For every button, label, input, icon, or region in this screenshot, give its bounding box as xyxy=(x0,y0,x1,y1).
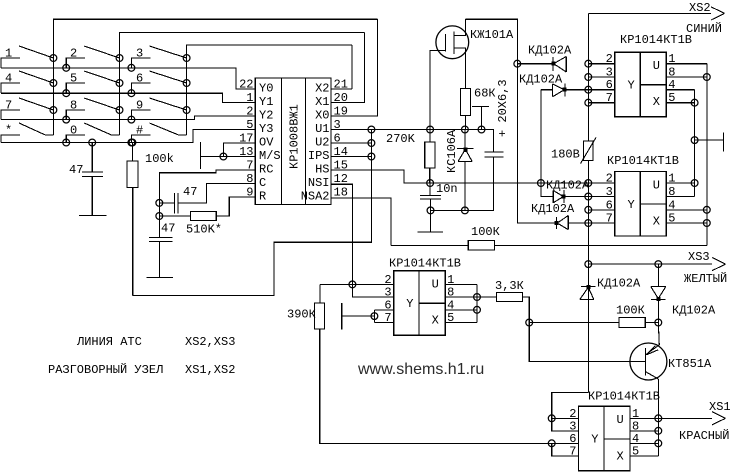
svg-text:HS: HS xyxy=(315,163,329,177)
key 6 switch xyxy=(131,83,150,93)
svg-text:XS2,XS3: XS2,XS3 xyxy=(185,335,235,349)
terminal bar at U4 xyxy=(341,303,343,329)
svg-text:www.shems.h1.ru: www.shems.h1.ru xyxy=(357,361,484,378)
svg-text:XS3: XS3 xyxy=(688,250,710,264)
svg-text:390К: 390К xyxy=(287,308,316,322)
junction U2 pin8 on x707 xyxy=(703,74,710,81)
svg-text:ЛИНИЯ АТС: ЛИНИЯ АТС xyxy=(76,335,142,349)
wire pin13 M/S stub to terminal bar xyxy=(201,156,256,158)
junction U1/U-common xyxy=(368,126,375,133)
wire pin6 U2 stub xyxy=(331,142,371,144)
svg-text:X2: X2 xyxy=(315,82,329,96)
key 0 switch xyxy=(66,135,85,143)
wire 3,3K node down to base xyxy=(529,323,645,362)
junction on U4 pin7 bracket xyxy=(371,313,378,320)
junction U3 pin on x588 xyxy=(585,220,592,227)
svg-text:0: 0 xyxy=(70,124,77,138)
junction x541 on HS wire xyxy=(538,180,545,187)
wire pin21 up to col3 wire xyxy=(351,45,353,89)
svg-text:1: 1 xyxy=(5,47,12,61)
terminal bar above C4 xyxy=(472,106,489,108)
svg-text:4: 4 xyxy=(5,72,12,86)
junction key 6 on column xyxy=(183,80,190,87)
wire C2 right to pin 8 xyxy=(178,184,256,203)
junction U5 pin4 xyxy=(655,440,662,447)
diode VD4 KD102A (pin7 line) xyxy=(517,222,545,224)
key # switch xyxy=(131,135,150,143)
junction U3 pin4 on x707 xyxy=(703,206,710,213)
svg-text:КД102А: КД102А xyxy=(672,304,716,318)
wire bus row1 (Y0) to pin 22 xyxy=(1,68,255,89)
key 5 switch xyxy=(66,83,85,93)
wire XS2 from x588 top xyxy=(588,12,711,14)
diode VD2 KD102A (pin6 line) xyxy=(541,89,553,91)
ground stub below 10n xyxy=(430,210,432,232)
junction key 9 on column xyxy=(183,107,190,114)
wire pin18 NSA2 down to 100K wire xyxy=(331,198,391,246)
svg-text:X: X xyxy=(432,314,439,328)
junction 10n bottom xyxy=(427,207,434,214)
junction IPS/U-common xyxy=(368,153,375,160)
VT2 base bar xyxy=(644,348,646,375)
capacitor C4 20uF polarized xyxy=(482,130,494,152)
wire main vertical x=588 middle xyxy=(587,161,589,393)
capacitor C5 10n xyxy=(429,183,431,196)
junction key 1 on column xyxy=(50,55,57,62)
junction 100K right / collector xyxy=(655,319,662,326)
svg-text:КД102А: КД102А xyxy=(531,202,575,216)
key 4 switch xyxy=(1,83,20,93)
svg-text:#: # xyxy=(136,124,143,138)
svg-text:X1: X1 xyxy=(315,95,329,109)
wire VD2 anode from x541 vertical xyxy=(540,90,542,183)
junction U4 pin8 xyxy=(474,294,481,301)
svg-text:Y: Y xyxy=(406,297,413,311)
junction U4 pin4 xyxy=(474,306,481,313)
junction OV-M/S xyxy=(220,153,227,160)
svg-text:3: 3 xyxy=(136,47,143,61)
svg-text:8: 8 xyxy=(70,99,77,113)
svg-text:Y: Y xyxy=(628,78,635,92)
VT2 collector diagonal with arrow xyxy=(645,345,659,355)
wire pin17 OV stub down to M/S xyxy=(223,143,255,157)
U2 left pin stubs to x588 xyxy=(588,63,615,65)
svg-text:Y2: Y2 xyxy=(259,109,273,123)
U4 pin6/pin7 stubs bracket xyxy=(374,309,393,311)
svg-text:КС106А: КС106А xyxy=(445,129,459,173)
wire RC pin7 to node A xyxy=(159,170,255,203)
junction U3 pin5 on x707 xyxy=(703,220,710,227)
wire x=588 down-left to bottom block xyxy=(552,393,589,419)
svg-text:X: X xyxy=(653,215,660,229)
svg-text:RC: RC xyxy=(259,163,273,177)
resistor R 100K right xyxy=(529,322,619,324)
svg-text:КР1014КТ1В: КР1014КТ1В xyxy=(607,154,679,168)
svg-text:U: U xyxy=(432,277,439,291)
VT1 gate lead to node C xyxy=(430,50,445,129)
wire pin3 U1 long wire to top-right network xyxy=(331,129,493,131)
svg-text:КД102А: КД102А xyxy=(597,277,641,291)
diode VD5 KD102A on x588 (cathode up) xyxy=(581,286,596,288)
svg-text:Y0: Y0 xyxy=(259,82,273,96)
svg-text:6: 6 xyxy=(136,72,143,86)
junction U5 pin1 / XS1 xyxy=(655,415,662,422)
svg-text:КЖ101А: КЖ101А xyxy=(470,28,514,42)
svg-text:X: X xyxy=(653,95,660,109)
junction U2 pin5 on x694 xyxy=(691,99,698,106)
junction U2 pin on x588 xyxy=(585,86,592,93)
svg-text:68К: 68К xyxy=(474,87,496,101)
junction key 5 contact on bus xyxy=(63,90,70,97)
svg-text:47: 47 xyxy=(183,185,197,199)
wire U2 pins1+8 vertical x707 xyxy=(706,64,708,246)
junction VD1 wire on x517 xyxy=(514,60,521,67)
optocoupler U2 KR1014KT1V body xyxy=(615,52,667,117)
svg-text:ЖЕЛТЫЙ: ЖЕЛТЫЙ xyxy=(684,271,727,286)
VT1 channel bar xyxy=(453,32,455,55)
svg-text:XS1,XS2: XS1,XS2 xyxy=(185,363,235,377)
svg-text:180В: 180В xyxy=(551,148,580,162)
junction U2/U-common xyxy=(368,140,375,147)
U3 left pin stubs to x588 xyxy=(588,182,615,184)
junction C4 top node xyxy=(478,126,485,133)
capacitor C1 47 xyxy=(91,143,93,173)
svg-text:NSA2: NSA2 xyxy=(301,190,330,204)
wire U-common vertical upper xyxy=(370,130,372,157)
key 7 switch xyxy=(1,110,20,120)
svg-text:КР1008ВЖ1: КР1008ВЖ1 xyxy=(288,104,302,169)
wire pin15 HS to right network xyxy=(331,170,588,183)
wire node A down to node B xyxy=(158,203,160,216)
svg-text:РАЗГОВОРНЫЙ УЗЕЛ: РАЗГОВОРНЫЙ УЗЕЛ xyxy=(48,362,163,377)
junction key 7 on column xyxy=(50,107,57,114)
junction node A (C2 left) xyxy=(156,200,163,207)
junction node B (R510K left) xyxy=(156,213,163,220)
svg-text:8: 8 xyxy=(246,172,253,186)
svg-text:U2: U2 xyxy=(315,136,329,150)
svg-text:C: C xyxy=(259,176,266,190)
wire pin12 NSI down to middle block xyxy=(331,184,394,297)
svg-text:1: 1 xyxy=(246,91,253,105)
wire VT1 drain top to x=517 vertical xyxy=(466,19,518,222)
optocoupler U4 KR1014KT1V body xyxy=(394,271,446,336)
junction key 2 contact on bus xyxy=(63,64,70,71)
junction 10n top (HS wire) xyxy=(427,180,434,187)
capacitor C3 47 below node B xyxy=(158,216,160,238)
diode VD1 KD102A (pin2 line) xyxy=(517,63,553,65)
junction U3 pin1 on x694 xyxy=(691,180,698,187)
VT1 source lead down to 68K xyxy=(454,48,465,88)
junction U2 pin on x588 xyxy=(585,99,592,106)
svg-text:X0: X0 xyxy=(315,109,329,123)
svg-text:U: U xyxy=(617,413,624,427)
junction U3 pin on x588 xyxy=(585,193,592,200)
U4 pin2 wire from 390K top xyxy=(320,283,394,285)
junction zener top xyxy=(462,126,469,133)
key 1 switch xyxy=(1,58,20,68)
junction U2 pin on x588 xyxy=(585,74,592,81)
transistor VT2 KT851A circle xyxy=(630,343,667,380)
svg-text:OV: OV xyxy=(259,136,274,150)
svg-text:КД102А: КД102А xyxy=(528,44,572,58)
U5 pin2 stub xyxy=(552,417,579,419)
diode VD6 KD102A at x658 (cathode down) xyxy=(657,264,659,287)
junction U5 pin8 xyxy=(655,427,662,434)
U5 pin2-pin3 tie xyxy=(552,418,579,431)
svg-text:КР1014КТ1В: КР1014КТ1В xyxy=(620,33,692,47)
key 9 switch xyxy=(131,110,150,120)
svg-text:47: 47 xyxy=(161,222,175,236)
junction U3 pin on x588 xyxy=(585,206,592,213)
wire bus row4 (Y3) to pin 5 xyxy=(1,130,255,143)
wire U2 pins4+5 vertical x694 xyxy=(694,90,696,197)
svg-text:2: 2 xyxy=(246,105,253,119)
svg-text:100k: 100k xyxy=(145,152,174,166)
junction U3 pin on x588 xyxy=(585,180,592,187)
junction 3,3K/100K node xyxy=(526,319,533,326)
wire terminal bar to U4 pin7 xyxy=(342,315,375,317)
resistor 68K xyxy=(460,88,470,115)
svg-text:КРАСНЫЙ: КРАСНЫЙ xyxy=(679,428,729,443)
wire 100k bottom to U-common vertical xyxy=(133,157,372,296)
svg-text:КР1014КТ1В: КР1014КТ1В xyxy=(588,390,660,404)
junction node C (gate/270K) xyxy=(427,126,434,133)
wire pin14 IPS stub xyxy=(331,156,371,158)
svg-text:100К: 100К xyxy=(616,304,645,318)
svg-text:3,3К: 3,3К xyxy=(495,279,524,293)
junction key 8 on column xyxy=(116,107,123,114)
svg-text:22: 22 xyxy=(239,78,253,92)
junction U5 pin6 xyxy=(548,440,555,447)
svg-text:R: R xyxy=(259,190,266,204)
resistor 270K xyxy=(429,130,431,143)
junction XS3 diode VD6 tap xyxy=(655,261,662,268)
VT1 drain lead up to top wire xyxy=(454,19,465,35)
junction bar wire on x694 xyxy=(691,137,698,144)
wire keypad column 3 (x=186.6) up and across to IC xyxy=(187,45,352,135)
wire U5 right common vertical xyxy=(657,418,659,456)
wire keypad column 1 (x=53.4) up and across to IC xyxy=(53,19,377,135)
arrow XS2 xyxy=(711,7,725,14)
svg-text:КД102А: КД102А xyxy=(519,73,563,87)
svg-text:9: 9 xyxy=(136,99,143,113)
junction key 5 on column xyxy=(116,80,123,87)
varistor 180V body xyxy=(583,141,593,161)
junction key 8 contact on bus xyxy=(63,116,70,123)
wire bus row3 (Y2) to pin 2 xyxy=(1,116,255,120)
resistor R510K* xyxy=(159,215,190,217)
svg-text:NSI: NSI xyxy=(308,176,330,190)
junction key 4 on column xyxy=(50,80,57,87)
junction R100k and key # on bus row4 xyxy=(129,139,136,146)
svg-text:9: 9 xyxy=(246,186,253,200)
svg-text:XS2: XS2 xyxy=(689,1,711,15)
junction key 3 contact on bus xyxy=(128,64,135,71)
wire pin21 X2 stub xyxy=(331,88,352,90)
svg-text:Y: Y xyxy=(628,198,635,212)
svg-text:M/S: M/S xyxy=(259,149,281,163)
resistor 100k xyxy=(131,143,133,162)
svg-text:270K: 270K xyxy=(386,132,416,146)
VT2 emitter diagonal xyxy=(645,372,658,380)
junction key 6 contact on bus xyxy=(128,90,135,97)
optocoupler U5 KR1014KT1V body xyxy=(579,406,631,471)
wire 10n bottom node xyxy=(431,209,465,211)
svg-text:КТ851А: КТ851А xyxy=(668,357,712,371)
svg-text:+ 20Х6,3: + 20Х6,3 xyxy=(496,79,510,137)
svg-text:5: 5 xyxy=(70,72,77,86)
diode VD3 KD102A (pin3 line) xyxy=(541,183,553,197)
junction C1 on bus row4 xyxy=(89,139,96,146)
U5 pin6-pin7 tie xyxy=(552,443,579,456)
zener VD KS106A xyxy=(464,130,466,149)
svg-text:510K*: 510K* xyxy=(186,223,222,237)
arrow XS1 xyxy=(712,412,726,419)
svg-text:U: U xyxy=(653,59,660,73)
wire XS3 from x588 xyxy=(588,263,712,265)
wire to right terminal bar xyxy=(695,139,724,141)
wire keypad column 2 (x=119.5) up and across to IC xyxy=(120,32,365,134)
key 2 switch xyxy=(66,58,85,68)
wire bus row2 (Y1) to pin 1 xyxy=(1,93,255,102)
terminal bar at M/S xyxy=(200,142,202,169)
wire 390K bottom to bottom block pin6 xyxy=(320,329,552,443)
wire pin19 X0 stub xyxy=(331,19,377,116)
key 8 switch xyxy=(66,110,85,120)
svg-text:Y3: Y3 xyxy=(259,122,273,136)
junction key # contact on bus xyxy=(128,139,135,146)
U2 right pins wiring xyxy=(666,63,707,65)
junction key 9 contact on bus xyxy=(128,116,135,123)
terminal bar right edge xyxy=(722,133,724,152)
wire pin20 X1 stub xyxy=(331,32,364,102)
svg-text:U1: U1 xyxy=(315,122,329,136)
resistor R 100K middle (NSA2 line) xyxy=(391,244,469,246)
wire main vertical x=588 upper xyxy=(587,13,589,140)
IC U1 KR1008VZh1 body xyxy=(255,78,331,205)
svg-text:X: X xyxy=(617,449,624,463)
junction key 2 on column xyxy=(116,55,123,62)
resistor R 390K xyxy=(319,284,321,303)
svg-text:100К: 100К xyxy=(471,225,500,239)
arrow XS3 xyxy=(712,258,726,265)
svg-text:Y: Y xyxy=(591,433,598,447)
U5 pin6 stub xyxy=(552,442,579,444)
svg-text:XS1: XS1 xyxy=(709,400,730,414)
optocoupler U3 KR1014KT1V body xyxy=(615,172,667,237)
key * switch xyxy=(1,135,20,143)
junction key 3 on column xyxy=(183,55,190,62)
junction NSI on U4 pin2 xyxy=(349,281,356,288)
junction U2 pin on x588 xyxy=(585,60,592,67)
VT1 gate bar xyxy=(444,34,446,52)
wire R510K right to pin 9 xyxy=(216,197,255,216)
svg-text:КД102А: КД102А xyxy=(546,179,590,193)
transistor VT1 KZh101A circle xyxy=(436,26,469,59)
junction U5 pin2 xyxy=(548,415,555,422)
VT2 emitter wire down xyxy=(657,379,659,418)
junction XS3 on x588 xyxy=(585,261,592,268)
svg-text:IPS: IPS xyxy=(308,149,330,163)
wire XS1 xyxy=(658,417,712,419)
svg-text:10n: 10n xyxy=(436,182,458,196)
svg-text:*: * xyxy=(5,124,12,138)
resistor R 3,3K xyxy=(477,296,497,298)
svg-text:КР1014КТ1В: КР1014КТ1В xyxy=(389,257,461,271)
junction key 0 contact on bus xyxy=(63,139,70,146)
U3 right pins wiring xyxy=(666,182,694,184)
capacitor C2 47 horizontal xyxy=(174,193,176,214)
junction zener bottom xyxy=(462,207,469,214)
svg-text:7: 7 xyxy=(246,159,253,173)
svg-text:2: 2 xyxy=(70,47,77,61)
U5 right pins wiring xyxy=(630,417,658,419)
svg-text:7: 7 xyxy=(5,99,12,113)
svg-text:5: 5 xyxy=(246,118,253,132)
svg-text:U: U xyxy=(653,178,660,192)
VT2 collector wire up xyxy=(658,323,659,345)
svg-text:47: 47 xyxy=(69,163,83,177)
U4 right pins wiring xyxy=(445,283,477,285)
svg-text:Y1: Y1 xyxy=(259,95,273,109)
key 3 switch xyxy=(131,58,150,68)
wire U4 right pins common vertical xyxy=(476,284,478,322)
